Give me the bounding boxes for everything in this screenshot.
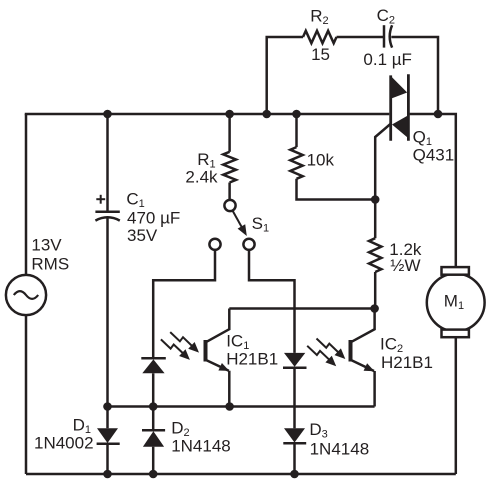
svg-text:1N4148: 1N4148 bbox=[310, 439, 370, 458]
wire R2 C2 loop left vertical bbox=[267, 37, 303, 114]
node top rail C1 bbox=[103, 110, 112, 119]
svg-text:C1: C1 bbox=[126, 190, 144, 211]
wire emitter rail bbox=[108, 405, 375, 408]
wire C1 bottom down to emitter rail bbox=[106, 218, 109, 429]
wire R1 to switch pole bbox=[228, 183, 231, 200]
motor M1 bbox=[427, 267, 485, 337]
wire C1 branch top bbox=[106, 114, 109, 212]
svg-text:1N4002: 1N4002 bbox=[34, 434, 94, 453]
phototransistor IC2 bbox=[351, 309, 375, 407]
wire left vertical lower (source bottom lead) bbox=[25, 315, 28, 474]
node top rail R1 bbox=[225, 110, 234, 119]
wire D3 to bottom rail bbox=[293, 443, 296, 474]
svg-text:S1: S1 bbox=[252, 214, 269, 235]
svg-text:15: 15 bbox=[311, 45, 330, 64]
node emitter rail C1 branch bbox=[103, 402, 112, 411]
wire left vertical upper (source top lead) bbox=[25, 114, 28, 275]
node emitter rail IC1 emitter bbox=[225, 402, 234, 411]
node top rail R2 loop bbox=[262, 110, 271, 119]
wire top rail right of triac bbox=[410, 114, 456, 267]
node top rail C2 right bbox=[434, 110, 443, 119]
svg-text:1N4148: 1N4148 bbox=[171, 437, 231, 456]
capacitor C1 bbox=[95, 212, 119, 221]
svg-text:35V: 35V bbox=[127, 226, 158, 245]
node collector junction bbox=[370, 304, 379, 313]
svg-text:RMS: RMS bbox=[31, 254, 69, 273]
triac Q1 bbox=[391, 74, 409, 141]
switch S1 bbox=[209, 200, 254, 250]
wire S1 right throw to IC2 LED column bbox=[249, 250, 295, 353]
node bottom rail D1 bbox=[103, 470, 112, 479]
wire IC2 LED down through emitter rail to D3 bbox=[293, 368, 296, 429]
wire IC1 collector rail bbox=[229, 307, 374, 310]
wire 10k branch top bbox=[295, 114, 298, 147]
svg-text:D3: D3 bbox=[309, 420, 327, 441]
node gate junction bbox=[371, 195, 380, 204]
plus polarity mark bbox=[96, 195, 105, 204]
svg-text:H21B1: H21B1 bbox=[226, 349, 278, 368]
photon arrows IC2 bbox=[307, 339, 345, 367]
wire S1 left throw to IC1 LED column bbox=[153, 250, 215, 358]
svg-text:C2: C2 bbox=[377, 6, 395, 27]
wire gate node to 1.2k bbox=[374, 200, 377, 239]
wire top rail left of triac bbox=[26, 113, 389, 114]
diode D1 bbox=[97, 428, 120, 444]
resistor R1 bbox=[223, 152, 236, 183]
wire bottom rail bbox=[26, 473, 456, 476]
svg-text:470 µF: 470 µF bbox=[127, 208, 180, 227]
svg-text:R2: R2 bbox=[310, 7, 328, 28]
photon arrows IC1 bbox=[161, 332, 199, 360]
capacitor C2 bbox=[384, 25, 392, 47]
wire C2 to right vertical down to rail bbox=[391, 37, 438, 114]
wire R2 to C2 bbox=[337, 36, 385, 39]
svg-text:2.4k: 2.4k bbox=[185, 168, 218, 187]
source V1 13V RMS bbox=[6, 275, 46, 315]
node bottom rail D2 bbox=[149, 470, 158, 479]
wire 1.2k bottom to collector node bbox=[374, 272, 377, 309]
phototransistor IC1 bbox=[206, 309, 230, 407]
svg-text:0.1 µF: 0.1 µF bbox=[363, 50, 412, 69]
resistor 10k bbox=[290, 147, 302, 179]
wire IC1 LED to emitter rail and D2 bbox=[152, 373, 155, 430]
svg-text:13V: 13V bbox=[31, 235, 62, 254]
node bottom rail D3 bbox=[290, 470, 299, 479]
diode D3 bbox=[283, 428, 306, 443]
svg-text:10k: 10k bbox=[307, 151, 335, 170]
wire 10k bottom to gate node bbox=[297, 179, 376, 200]
svg-text:Q431: Q431 bbox=[413, 145, 455, 164]
wire D1 to bottom rail bbox=[106, 444, 109, 474]
wire R1 branch top bbox=[228, 114, 231, 152]
wire motor bottom lead bbox=[455, 337, 458, 474]
svg-text:H21B1: H21B1 bbox=[381, 353, 433, 372]
wire triac gate bbox=[375, 124, 391, 200]
wire D2 to bottom rail bbox=[152, 447, 155, 474]
LED of IC1 bbox=[141, 358, 166, 373]
svg-text:IC2: IC2 bbox=[380, 334, 403, 355]
svg-text:½W: ½W bbox=[390, 256, 420, 275]
node emitter rail D2 branch bbox=[149, 402, 158, 411]
node top rail 10k bbox=[292, 110, 301, 119]
LED of IC2 bbox=[283, 353, 307, 368]
resistor 1.2k bbox=[369, 238, 381, 272]
diode D2 bbox=[142, 430, 165, 446]
resistor R2 bbox=[303, 31, 337, 43]
